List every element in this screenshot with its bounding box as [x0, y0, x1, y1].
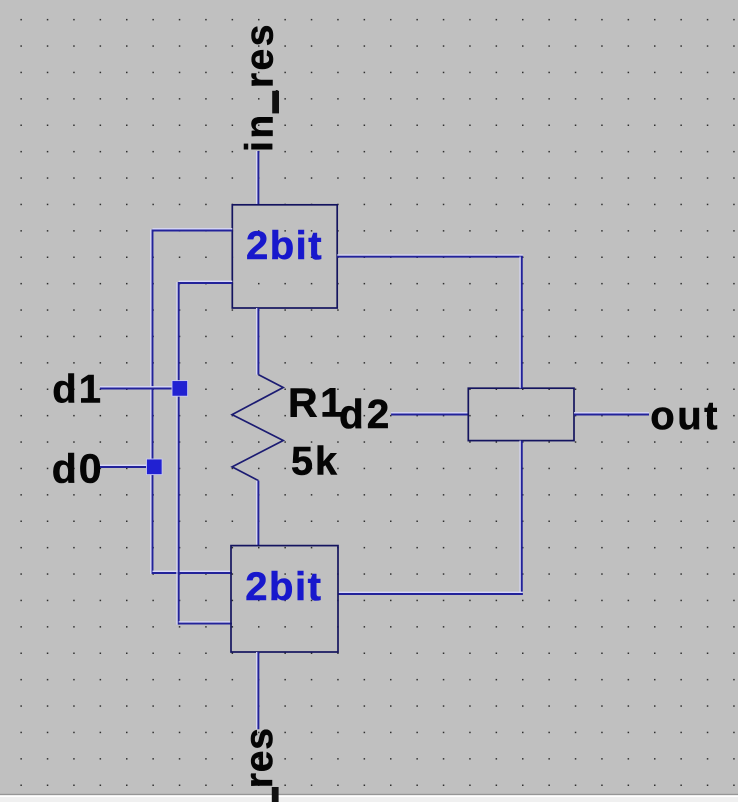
- svg-text:d1: d1: [52, 368, 103, 412]
- 2bit block U1 (top): [232, 205, 337, 308]
- svg-text:5k: 5k: [291, 440, 339, 484]
- svg-text:in_res: in_res: [239, 22, 282, 152]
- status bar strip at bottom: [0, 794, 738, 802]
- wire: across to U2 right pin: [338, 592, 523, 594]
- node res (rotated net label, clipped at bottom): [238, 727, 281, 802]
- wire: U1 right pin across top: [337, 255, 523, 257]
- resistor R1 zigzag body: [232, 375, 283, 481]
- wire: down into U3 top pin: [520, 257, 522, 389]
- wire: U2 bottom pin to net res: [257, 652, 259, 729]
- wire: resistor R1 to U2 top pin: [257, 481, 259, 546]
- wire: left rail A vertical: [151, 230, 153, 575]
- svg-text:out: out: [650, 394, 720, 438]
- wire: rail A to U2 upper-left pin: [153, 571, 233, 573]
- node in_res (rotated net label): [239, 22, 282, 152]
- block U3 (right, unlabeled): [468, 388, 574, 440]
- wire: d2 to U3 left pin: [391, 413, 468, 415]
- junction dot on rail B (net d1): [172, 381, 188, 397]
- svg-text:2bit: 2bit: [245, 565, 322, 609]
- wire: d1 to rail B: [100, 387, 179, 389]
- wire: U1 bottom pin to resistor R1: [257, 308, 259, 375]
- junction dot on rail A (net d0): [147, 459, 163, 475]
- wire: rail B to U2 lower-left pin: [179, 622, 232, 624]
- wire: U1 lower-left pin stub: [179, 281, 233, 283]
- svg-text:2bit: 2bit: [246, 224, 323, 268]
- svg-text:d2: d2: [339, 391, 392, 437]
- svg-text:d0: d0: [52, 445, 104, 491]
- svg-text:R1: R1: [288, 380, 345, 426]
- wire: U3 bottom pin down: [520, 441, 522, 595]
- wire: U1 upper-left pin stub: [153, 229, 233, 231]
- wire: left rail B vertical: [177, 282, 179, 625]
- wire: U3 right pin to out: [574, 413, 649, 415]
- 2bit block U2 (bottom): [231, 546, 338, 652]
- wire: net in_res down to U1 top pin: [257, 151, 259, 205]
- wire: d0 to rail A: [100, 465, 153, 467]
